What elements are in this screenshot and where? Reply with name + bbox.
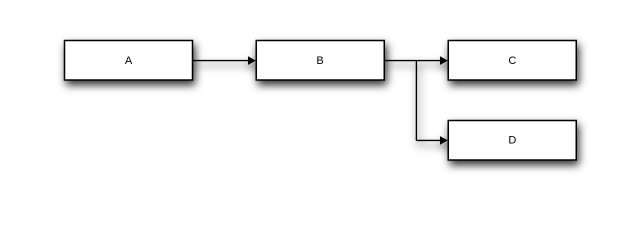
arrowhead into D [440,136,448,145]
arrowhead into C [440,56,448,65]
node B box [256,41,384,81]
svg-text:C: C [508,55,516,67]
wire B to C [384,60,441,62]
svg-text:A: A [125,55,133,67]
wire A to B [193,60,250,62]
svg-text:B: B [316,55,323,67]
node C box [448,41,576,81]
arrowhead into B [248,56,256,65]
wire branch B to D horizontal segment [416,139,441,141]
wire branch B to D vertical segment [415,61,417,141]
node D box [448,121,576,161]
svg-text:D: D [508,135,516,147]
node A box [65,41,193,81]
